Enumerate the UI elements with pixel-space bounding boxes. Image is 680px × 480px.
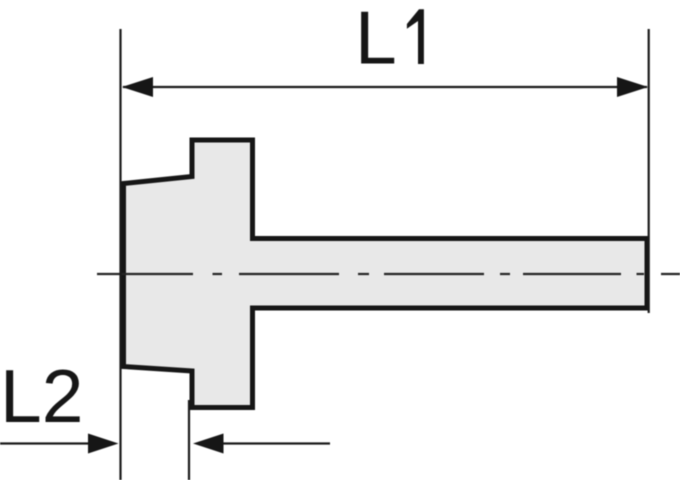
dimension line L2 left (with arrow pointing right) xyxy=(0,442,95,444)
centerline (dash-dot axis) xyxy=(97,273,680,275)
arrowhead L1 left xyxy=(122,77,153,97)
extension line right (for L1) xyxy=(648,29,650,313)
part body (plug profile, gray fill with thick outline) xyxy=(124,140,648,408)
svg-text:L2: L2 xyxy=(0,354,83,438)
arrowhead L2 right xyxy=(193,434,224,454)
dimension line L1 xyxy=(123,86,647,88)
dimension line L2 right (with arrow pointing left) xyxy=(220,442,330,444)
extension line left (for L1 and L2) xyxy=(119,29,121,480)
arrowhead L1 right xyxy=(617,77,648,97)
arrowhead L2 left xyxy=(88,434,119,454)
svg-text:L: L xyxy=(355,0,397,80)
extension line for L2 (below collar step) xyxy=(188,400,190,480)
